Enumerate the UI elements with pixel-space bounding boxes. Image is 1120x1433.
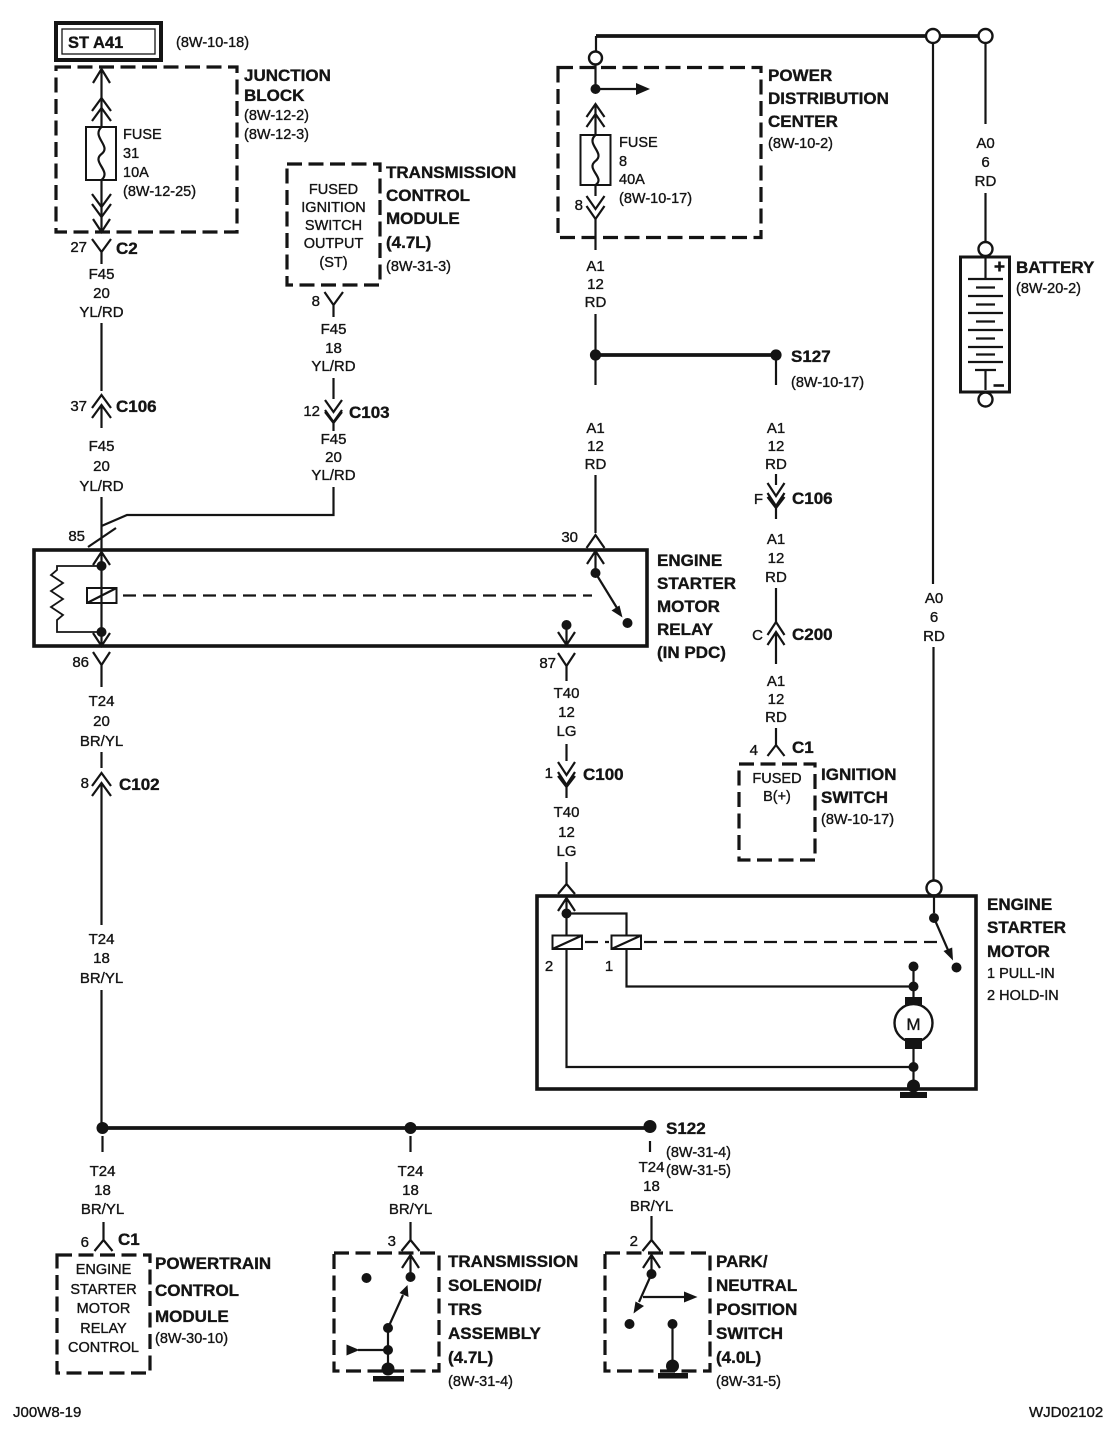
svg-text:86: 86 [72,654,89,671]
svg-text:(4.7L): (4.7L) [448,1348,493,1367]
node relay switch pivot [591,568,601,578]
fuse 31 symbol [86,127,116,180]
wire stub below left dot [101,1136,103,1152]
wire [775,474,777,485]
wire out of PDC [594,185,596,250]
svg-text:DISTRIBUTION: DISTRIBUTION [768,89,889,108]
svg-text:18: 18 [93,950,110,967]
svg-text:(8W-12-2): (8W-12-2) [244,108,309,124]
svg-text:WJD02102: WJD02102 [1029,1404,1103,1421]
svg-text:PARK/: PARK/ [716,1252,768,1271]
svg-text:(8W-31-4): (8W-31-4) [666,1145,731,1161]
arrow out of relay pin 87 [558,625,575,645]
svg-text:12: 12 [303,403,320,420]
svg-text:CENTER: CENTER [768,112,838,131]
svg-text:85: 85 [68,528,85,545]
svg-text:B(+): B(+) [763,789,791,805]
svg-text:RELAY: RELAY [657,620,714,639]
svg-text:12: 12 [587,276,604,293]
TCM internal text FUSED IGNITION SWITCH OUTPUT (ST) [301,182,365,271]
connector slash pin 85 [68,528,116,547]
svg-text:20: 20 [93,285,110,302]
coil 1 pull-in [605,936,641,976]
arrow out of relay pin 86 [93,632,110,646]
node motor switch pivot [929,913,939,923]
TRS label [448,1252,578,1390]
ignition switch label [821,765,897,828]
svg-text:LG: LG [556,723,576,740]
svg-text:F45: F45 [89,266,115,283]
node motor bottom junction [909,1062,919,1072]
svg-text:FUSE: FUSE [123,127,162,143]
wire hold-in coil to motor bottom [567,949,914,1067]
svg-text:C106: C106 [116,397,157,416]
connector pin 30 [561,529,604,548]
svg-text:12: 12 [768,550,785,567]
node PNP ground dot [666,1360,679,1373]
double chevron up in junction block [92,98,111,121]
engine starter motor relay box [34,550,647,646]
svg-text:12: 12 [558,704,575,721]
svg-text:8: 8 [575,197,583,214]
arrow into relay pin 85 [93,552,110,566]
connector C2 pin 27 [70,239,137,264]
PCM label [155,1254,271,1347]
svg-text:12: 12 [558,824,575,841]
wire label A1 12 RD [765,420,787,473]
relay coil symbol [87,588,117,603]
node PNP pivot [647,1269,657,1279]
ignition switch internal text FUSED B(+) [752,771,801,805]
svg-text:18: 18 [402,1182,419,1199]
svg-text:M: M [906,1015,920,1034]
dashed mechanical link in relay [123,594,592,596]
node bus middle junction [405,1122,417,1134]
wire label F45 20 YL/RD [79,266,123,321]
node junction dot with arrow tap [591,83,651,95]
svg-text:(8W-31-5): (8W-31-5) [666,1163,731,1179]
node relay stationary contact [623,618,633,628]
svg-text:RD: RD [765,456,787,473]
svg-text:C1: C1 [118,1230,140,1249]
svg-text:BLOCK: BLOCK [244,86,305,105]
PNP switch blade arrow [634,1274,652,1314]
wire label A1 12 RD [585,258,607,311]
connector Y pin 86 [72,652,110,687]
node TRS blade pivot [383,1323,393,1333]
svg-text:C100: C100 [583,765,624,784]
fuse 8 text [619,135,692,207]
connector C106 pin 37 [70,395,156,428]
svg-text:2: 2 [630,1233,638,1250]
wire [565,862,567,875]
dashed link in motor box [585,941,945,943]
connector pin 3 [388,1222,420,1251]
PNP label [716,1252,797,1390]
svg-text:RD: RD [585,294,607,311]
svg-text:(8W-10-17): (8W-10-17) [791,375,864,391]
svg-text:SWITCH: SWITCH [821,788,888,807]
svg-text:C200: C200 [792,625,833,644]
svg-text:(8W-10-2): (8W-10-2) [768,136,833,152]
connector C200 pin C [752,622,832,664]
svg-text:T24: T24 [89,693,115,710]
svg-text:YL/RD: YL/RD [79,478,123,495]
powertrain control module dashed box [57,1255,150,1373]
svg-text:POSITION: POSITION [716,1300,797,1319]
svg-text:RD: RD [923,628,945,645]
connector Y pin 87 [539,653,575,681]
node hold-in junction [562,909,572,919]
arrow into PNP box [643,1255,660,1271]
wire label F45 20 YL/RD [79,438,123,495]
svg-text:MOTOR: MOTOR [987,942,1050,961]
engine starter motor box [537,896,976,1089]
arrow into TRS box [402,1255,419,1277]
svg-text:(8W-12-3): (8W-12-3) [244,127,309,143]
svg-text:(8W-12-25): (8W-12-25) [123,184,196,200]
svg-text:S127: S127 [791,347,831,366]
svg-text:F45: F45 [89,438,115,455]
svg-text:BR/YL: BR/YL [80,733,123,750]
ground below motor box [900,1092,927,1098]
svg-text:TRS: TRS [448,1300,482,1319]
wire [100,752,102,768]
svg-text:RD: RD [765,709,787,726]
TCM label [386,163,516,275]
svg-text:BATTERY: BATTERY [1016,258,1095,277]
svg-text:A0: A0 [925,590,943,607]
svg-text:JUNCTION: JUNCTION [244,66,331,85]
node ST A41 box [56,23,161,60]
double chevron up above fuse 8 [587,104,605,127]
splice S122 [644,1119,732,1179]
connector C103 pin 12 [303,400,389,431]
svg-text:(8W-10-18): (8W-10-18) [176,35,249,51]
junction block label [244,66,331,143]
wire [775,728,777,738]
svg-text:18: 18 [94,1182,111,1199]
wire stub below middle dot [409,1136,411,1152]
wire down to relay pin 85 [100,497,102,549]
ground below TRS [373,1376,404,1382]
wire pull-in coil to motor [627,949,914,997]
svg-text:YL/RD: YL/RD [311,358,355,375]
svg-text:8: 8 [81,775,89,792]
svg-text:MODULE: MODULE [386,209,460,228]
double chevron down below fuse 31 [92,194,111,217]
bottom bus wire [103,1126,651,1130]
svg-text:J00W8-19: J00W8-19 [13,1404,81,1421]
svg-text:F45: F45 [321,431,347,448]
svg-text:T40: T40 [554,685,580,702]
power distribution center dashed box [558,68,761,238]
svg-text:F45: F45 [321,321,347,338]
svg-text:C103: C103 [349,403,390,422]
svg-text:(IN PDC): (IN PDC) [657,643,726,662]
svg-text:BR/YL: BR/YL [389,1201,432,1218]
svg-text:YL/RD: YL/RD [79,304,123,321]
open circle battery positive terminal [979,242,993,256]
wire A0 right vertical upper [932,43,934,584]
svg-text:6: 6 [81,1234,89,1251]
svg-text:FUSED: FUSED [752,771,801,787]
node TRS entry junction [406,1272,416,1282]
svg-text:ENGINE: ENGINE [657,551,722,570]
svg-text:IGNITION: IGNITION [301,200,365,216]
svg-text:FUSED: FUSED [309,182,358,198]
svg-text:LG: LG [556,843,576,860]
svg-text:A1: A1 [767,673,785,690]
svg-text:MODULE: MODULE [155,1307,229,1326]
svg-text:CONTROL: CONTROL [155,1281,239,1300]
svg-text:8: 8 [312,293,320,310]
svg-text:BR/YL: BR/YL [80,970,123,987]
wire [332,378,334,399]
svg-text:T24: T24 [90,1163,116,1180]
transmission solenoid dashed box [334,1253,439,1371]
wire battery feed lower [984,193,986,242]
arrow down at bottom of junction block [93,219,110,232]
svg-text:(8W-20-2): (8W-20-2) [1016,281,1081,297]
node motor stationary contact [952,963,962,973]
svg-text:18: 18 [643,1178,660,1195]
PDC label [768,66,889,152]
wire label A0 6 RD [923,590,945,645]
svg-text:1: 1 [605,958,613,975]
svg-text:ENGINE: ENGINE [76,1262,132,1278]
node pull-in to motor junction lower [909,982,919,992]
svg-text:A1: A1 [767,420,785,437]
wire stub below S122 [649,1141,651,1152]
node pull-in to motor junction upper [909,962,919,972]
arrow into motor box [558,898,575,913]
fuse 31 text [123,127,196,200]
svg-text:MOTOR: MOTOR [657,597,720,616]
wire label T24 18 BR/YL [80,931,123,987]
svg-text:(8W-10-17): (8W-10-17) [821,812,894,828]
svg-text:BR/YL: BR/YL [630,1198,673,1215]
wire battery feed upper [984,43,986,124]
node PNP stationary contact [668,1319,678,1329]
junction block dashed box [56,67,237,232]
svg-text:A1: A1 [586,420,604,437]
relay switch blade [596,573,623,618]
svg-text:1 PULL-IN: 1 PULL-IN [987,966,1055,982]
svg-text:F: F [754,491,763,508]
wire label F45 18 YL/RD [311,321,355,375]
svg-text:T24: T24 [398,1163,424,1180]
svg-text:31: 31 [123,146,139,162]
wire [594,104,596,135]
wire circle to fuse [594,65,596,90]
svg-text:C2: C2 [116,239,138,258]
wire [594,314,596,350]
svg-text:4: 4 [750,742,758,759]
svg-text:NEUTRAL: NEUTRAL [716,1276,797,1295]
wire [650,1216,652,1228]
svg-text:12: 12 [587,438,604,455]
svg-text:37: 37 [70,398,87,415]
svg-text:TRANSMISSION: TRANSMISSION [386,163,516,182]
PNP tap arrow right [643,1292,698,1303]
svg-text:STARTER: STARTER [987,918,1066,937]
wire below S127 right branch [775,360,777,385]
power distribution center top bus wire [596,34,985,38]
svg-text:RELAY: RELAY [80,1321,127,1337]
connector C106 pin F [754,483,833,519]
transmission control module dashed box [287,164,380,285]
wire through relay coil [100,566,102,632]
svg-text:BR/YL: BR/YL [81,1201,124,1218]
svg-text:RD: RD [765,569,787,586]
svg-text:87: 87 [539,655,556,672]
svg-text:27: 27 [70,239,87,256]
svg-text:18: 18 [325,340,342,357]
svg-text:SWITCH: SWITCH [305,218,362,234]
svg-text:1: 1 [545,765,553,782]
wire A0 right vertical lower [932,647,934,884]
svg-text:6: 6 [981,154,989,171]
connector pin 8 of TCM [312,292,343,317]
svg-text:6: 6 [930,609,938,626]
node relay coil top junction [97,561,107,571]
wire [100,323,102,391]
svg-text:A1: A1 [586,258,604,275]
motor M [895,997,933,1049]
svg-text:(4.0L): (4.0L) [716,1348,761,1367]
wire label A1 12 RD [585,420,607,473]
node PNP blade contact [625,1319,635,1329]
svg-text:SOLENOID/: SOLENOID/ [448,1276,542,1295]
svg-text:ST A41: ST A41 [68,34,123,52]
open circle on bus at battery branch [979,29,993,43]
node TRS tap junction [383,1345,393,1355]
connector C100 pin 1 [545,762,624,798]
svg-text:T24: T24 [639,1159,665,1176]
wire motor bottom [912,1049,914,1086]
svg-text:C102: C102 [119,775,160,794]
wire label T24 20 BR/YL [80,693,123,750]
svg-text:ASSEMBLY: ASSEMBLY [448,1324,542,1343]
wire down to relay pin 30 [594,475,596,533]
svg-text:YL/RD: YL/RD [311,467,355,484]
svg-text:40A: 40A [619,172,645,188]
svg-text:STARTER: STARTER [657,574,736,593]
battery symbol [961,257,1010,392]
svg-text:IGNITION: IGNITION [821,765,897,784]
svg-text:T24: T24 [89,931,115,948]
relay label [657,551,736,662]
svg-text:C1: C1 [792,738,814,757]
svg-text:8: 8 [619,154,627,170]
wire label T40 12 LG [554,804,580,860]
wire below S127 left [594,360,596,385]
svg-text:10A: 10A [123,165,149,181]
svg-text:T40: T40 [554,804,580,821]
wire drop into PDC [595,36,597,52]
fuse 8 symbol [581,135,611,185]
svg-text:12: 12 [768,438,785,455]
svg-text:OUTPUT: OUTPUT [304,236,364,252]
wire from terminal circle to switch pivot [933,896,935,913]
wire label A1 12 RD [765,531,787,586]
svg-text:(8W-31-3): (8W-31-3) [386,259,451,275]
open circle battery negative terminal [979,393,993,407]
connector into engine starter motor [558,875,575,894]
TRS switch blade arrow [388,1285,409,1328]
svg-text:12: 12 [768,691,785,708]
wire label T24 18 BR/YL [81,1163,124,1218]
open circle terminal PDC [589,52,602,65]
svg-text:FUSE: FUSE [619,135,658,151]
svg-text:2: 2 [545,958,553,975]
svg-text:POWERTRAIN: POWERTRAIN [155,1254,271,1273]
svg-text:3: 3 [388,1233,396,1250]
splice S127 [590,347,864,391]
wire label F45 20 YL/RD [311,431,355,484]
svg-text:(ST): (ST) [319,255,347,271]
arrow into relay pin 30 [587,551,604,573]
wire to pull-in coil [567,914,627,936]
resistor in relay [51,566,102,632]
connector C1 pin 4 [750,738,814,759]
open circle at engine starter motor [927,881,942,896]
svg-text:MOTOR: MOTOR [77,1301,131,1317]
svg-text:CONTROL: CONTROL [68,1340,139,1356]
PCM internal text [68,1262,139,1356]
TRS tap arrow [347,1345,389,1356]
svg-text:CONTROL: CONTROL [386,186,470,205]
open circle on bus at A0 branch [926,29,940,43]
svg-text:30: 30 [561,529,578,546]
wire [565,744,567,761]
arrow up at top of junction block wire [93,69,110,83]
svg-text:(8W-31-5): (8W-31-5) [716,1374,781,1390]
node relay coil bottom junction [97,627,107,637]
wire label T24 18 BR/YL [630,1159,673,1215]
wire PNP contact down [671,1324,673,1361]
engine starter motor label [987,895,1066,1004]
svg-text:TRANSMISSION: TRANSMISSION [448,1252,578,1271]
svg-text:POWER: POWER [768,66,832,85]
svg-text:C106: C106 [792,489,833,508]
svg-text:RD: RD [975,173,997,190]
wire into hold-in coil [565,914,567,936]
svg-text:20: 20 [93,713,110,730]
connector C102 pin 8 [81,773,160,796]
node TRS ground dot [382,1363,395,1376]
double chevron down below fuse 8 [587,196,605,219]
wire [775,588,777,622]
node bus left junction [97,1122,109,1134]
coil 2 hold-in [545,936,582,976]
node ground junction on box edge [907,1080,920,1093]
wire branch from TCM joining pin 85 [102,487,334,526]
svg-text:RD: RD [585,456,607,473]
wire junction block vertical [100,70,102,232]
wire long down left [100,795,102,925]
battery label [1016,258,1095,297]
connector C1 pin 6 [81,1222,140,1251]
wire label T24 18 BR/YL [389,1163,432,1218]
wire to bottom bus [100,990,102,1125]
wire label A1 12 RD [765,673,787,726]
motor switch blade arrow [934,918,953,961]
wire label T40 12 LG [554,685,580,740]
svg-text:A1: A1 [767,531,785,548]
wire label A0 6 RD [975,135,997,190]
